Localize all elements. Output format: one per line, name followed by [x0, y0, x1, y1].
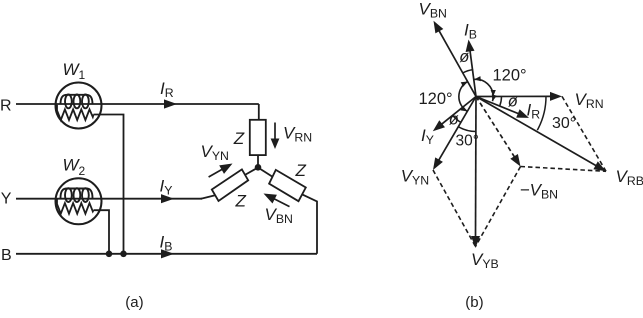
- svg-text:IY: IY: [421, 126, 434, 147]
- wattmeter W2: [56, 178, 102, 224]
- phasor IY: [441, 97, 476, 125]
- wire node N to Z (B phase): [258, 168, 273, 177]
- voltage arrow VYN: [209, 169, 223, 177]
- current arrow IR: [164, 99, 177, 108]
- wire Y line: [16, 198, 202, 200]
- phasor VYB: [475, 97, 478, 238]
- voltage arrow VRN: [274, 123, 276, 141]
- svg-text:(a): (a): [125, 294, 143, 311]
- svg-text:30°: 30°: [552, 115, 576, 132]
- svg-text:(b): (b): [465, 294, 483, 311]
- svg-text:W1: W1: [63, 60, 86, 82]
- svg-text:120°: 120°: [493, 66, 527, 84]
- phasor -VBN (dashed): [476, 97, 515, 158]
- svg-text:Z: Z: [295, 161, 307, 180]
- phasor VBN: [439, 30, 476, 97]
- svg-text:IB: IB: [160, 233, 173, 254]
- dashed construction -VBN tip to VRB tip: [521, 167, 607, 172]
- svg-text:VRB: VRB: [616, 167, 643, 188]
- svg-text:VYN: VYN: [401, 167, 429, 188]
- svg-text:VBN: VBN: [265, 205, 293, 226]
- dashed construction -VBN tip to VYB tip: [476, 167, 521, 247]
- wattmeter W1: [56, 83, 102, 129]
- node N (star point): [255, 164, 262, 171]
- svg-text:VBN: VBN: [419, 0, 447, 20]
- current arrow IB: [161, 249, 174, 258]
- svg-text:VYB: VYB: [471, 250, 499, 271]
- phasor VRN: [476, 95, 552, 97]
- svg-text:VYN: VYN: [201, 142, 229, 163]
- wire R line drop to load: [258, 104, 260, 120]
- svg-text:W2: W2: [63, 156, 86, 178]
- junction dot W1 coil on B line: [120, 251, 127, 258]
- svg-text:Z: Z: [235, 192, 247, 211]
- current arrow IY: [161, 194, 174, 203]
- svg-text:VRN: VRN: [283, 123, 312, 144]
- svg-text:30°: 30°: [456, 133, 479, 150]
- phasor IB: [470, 50, 476, 97]
- wire B line: [16, 253, 317, 255]
- wire R line: [16, 103, 259, 105]
- arc 30deg between VYN and VYB: [459, 127, 477, 132]
- arc phi between VBN and IB: [463, 70, 473, 73]
- svg-text:R: R: [0, 98, 12, 115]
- svg-text:ø: ø: [508, 93, 518, 111]
- svg-text:120°: 120°: [419, 90, 453, 108]
- svg-text:Y: Y: [1, 191, 12, 208]
- svg-text:IR: IR: [160, 79, 174, 100]
- arc phi between IY and VYN: [453, 115, 461, 122]
- wire Z to B line: [302, 194, 317, 253]
- svg-text:ø: ø: [459, 48, 469, 66]
- svg-text:−VBN: −VBN: [520, 180, 558, 201]
- arc 30deg between VRN and VRB: [537, 97, 546, 131]
- dashed construction VRN tip to VRB tip: [562, 96, 606, 171]
- impedance Z (R phase): [250, 120, 266, 155]
- wire W1 pressure coil to B line: [94, 115, 124, 254]
- arc phi between VRN and IR: [500, 97, 502, 106]
- phasor IR: [476, 97, 519, 115]
- phasor VRB: [476, 97, 597, 167]
- wire Y line to Z: [201, 195, 215, 198]
- wire W2 pressure coil to B line: [94, 210, 110, 254]
- phasor VYN: [438, 97, 476, 161]
- voltage arrow VBN: [273, 198, 289, 206]
- impedance Z (Y phase): [212, 169, 248, 201]
- svg-text:VRN: VRN: [575, 90, 604, 111]
- svg-text:IY: IY: [160, 176, 173, 197]
- arc 120deg between IB and VRN: [474, 79, 493, 96]
- svg-text:IB: IB: [464, 21, 477, 42]
- svg-text:Z: Z: [233, 129, 245, 148]
- dashed construction VYN tip to VYB tip: [433, 170, 476, 247]
- junction dot W2 coil on B line: [106, 251, 113, 258]
- impedance Z (B phase): [269, 170, 306, 201]
- wire Z to node N: [257, 155, 259, 168]
- arc 120deg between VBN and VYN: [459, 82, 468, 112]
- wire node N to Z (Y phase): [245, 168, 258, 175]
- arc continuation to IR with arrowhead: [492, 97, 495, 101]
- svg-text:B: B: [1, 247, 12, 264]
- svg-text:IR: IR: [527, 101, 541, 122]
- svg-text:ø: ø: [449, 111, 459, 129]
